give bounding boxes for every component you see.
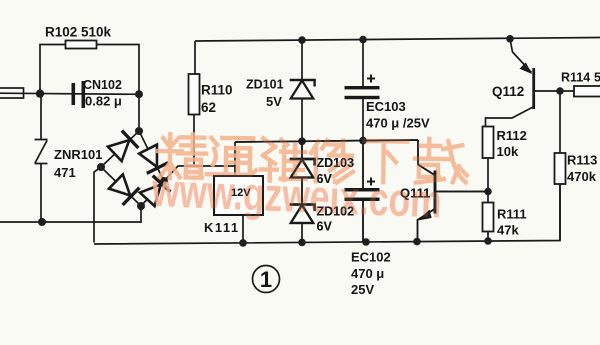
svg-text:10k: 10k <box>497 144 519 159</box>
svg-text:47k: 47k <box>497 223 519 238</box>
svg-text:K111: K111 <box>204 220 240 235</box>
svg-text:EC102: EC102 <box>351 250 391 265</box>
svg-text:470k: 470k <box>567 169 597 184</box>
svg-text:R110: R110 <box>201 83 233 98</box>
svg-text:0.82 μ: 0.82 μ <box>85 94 122 109</box>
svg-text:CN102: CN102 <box>83 78 122 92</box>
svg-text:5: 5 <box>594 71 600 85</box>
svg-text:www.gzweix.com: www.gzweix.com <box>150 163 443 228</box>
svg-text:6V: 6V <box>317 172 333 186</box>
svg-text:R102 510k: R102 510k <box>45 25 112 40</box>
svg-text:R111: R111 <box>497 207 527 222</box>
svg-text:R112: R112 <box>497 128 527 143</box>
svg-text:ZD103: ZD103 <box>317 156 355 170</box>
svg-text:R114: R114 <box>561 71 590 85</box>
svg-text:6V: 6V <box>317 220 333 234</box>
svg-text:Q111: Q111 <box>400 186 430 201</box>
svg-text:62: 62 <box>201 100 216 115</box>
svg-text:ZD101: ZD101 <box>246 78 284 92</box>
svg-text:EC103: EC103 <box>366 99 406 114</box>
svg-text:12V: 12V <box>231 187 251 199</box>
svg-text:470 μ: 470 μ <box>351 266 384 281</box>
svg-text:471: 471 <box>54 165 76 180</box>
svg-text:25V: 25V <box>351 282 374 297</box>
svg-text:ZD102: ZD102 <box>317 205 355 219</box>
svg-text:R113: R113 <box>567 153 597 168</box>
svg-text:5V: 5V <box>266 94 282 109</box>
svg-text:470 μ /25V: 470 μ /25V <box>366 116 430 131</box>
svg-text:Q112: Q112 <box>492 84 524 99</box>
svg-text:1: 1 <box>260 267 272 292</box>
svg-text:ZNR101: ZNR101 <box>54 147 102 162</box>
